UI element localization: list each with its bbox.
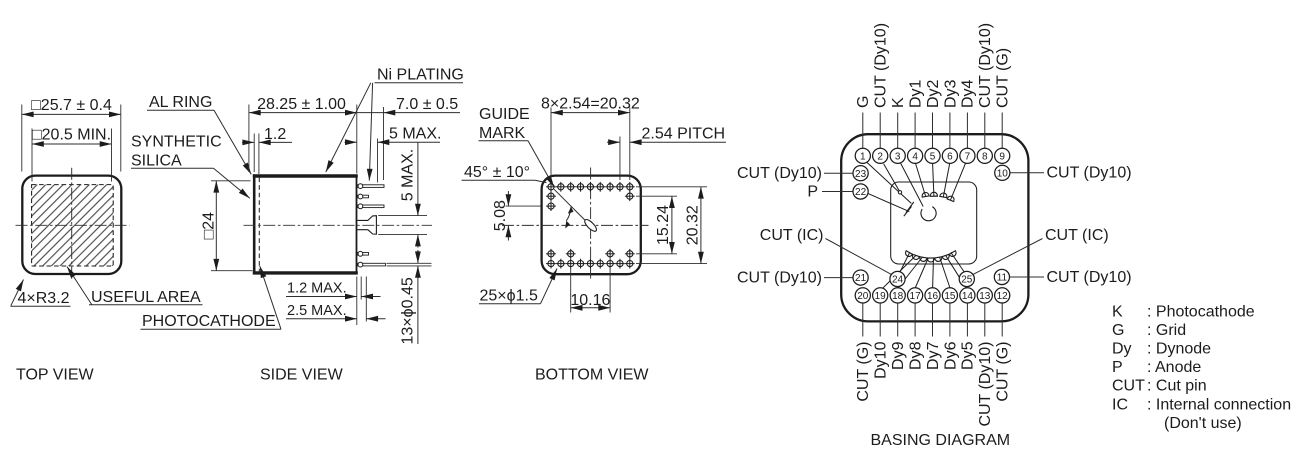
svg-text:7.0 ± 0.5: 7.0 ± 0.5	[396, 96, 458, 113]
svg-text:Dy3: Dy3	[942, 79, 959, 108]
svg-text:USEFUL AREA: USEFUL AREA	[91, 289, 201, 306]
pin 24 circle	[890, 271, 905, 286]
guide mark diagonal line	[554, 189, 585, 220]
svg-text:CUT (IC): CUT (IC)	[1045, 227, 1109, 244]
svg-text:CUT (Dy10): CUT (Dy10)	[977, 23, 994, 108]
pin 12 circle	[995, 288, 1010, 303]
svg-text:: Internal connection: : Internal connection	[1147, 396, 1291, 413]
svg-text:IC: IC	[1112, 396, 1128, 413]
bottom view pin hole 14	[566, 249, 576, 259]
svg-text:7: 7	[965, 151, 971, 162]
dimension 15.24: extension lines	[636, 195, 677, 197]
svg-text:2.54 PITCH: 2.54 PITCH	[642, 125, 726, 142]
label SYNTHETIC SILICA: underline and leader arrow	[131, 167, 214, 169]
bottom view pin hole 24	[615, 259, 625, 269]
pin 8 circle	[977, 148, 992, 163]
bottom pin extension lines	[387, 262, 432, 264]
svg-text:Dy5: Dy5	[960, 341, 977, 370]
pin 3 circle	[890, 148, 905, 163]
svg-text:8: 8	[982, 151, 988, 162]
dimension square 24: dimension line	[215, 181, 217, 271]
lead line pin22 label	[822, 191, 853, 193]
svg-text:10.16: 10.16	[570, 292, 610, 309]
svg-text:CUT (Dy10): CUT (Dy10)	[1047, 165, 1132, 182]
dimension 5 MAX vertical: label line	[417, 142, 419, 215]
svg-text:SILICA: SILICA	[131, 153, 182, 170]
svg-text:SIDE VIEW: SIDE VIEW	[260, 367, 344, 384]
dimension 1.2 MAX: extension lines	[356, 277, 358, 326]
dimension 8x2.54=20.32: dimension line	[551, 112, 630, 114]
side view: thick bottom edge	[253, 271, 358, 274]
svg-text:13: 13	[979, 291, 991, 302]
wire pin15 to bottom dynode assembly	[940, 257, 950, 288]
svg-text:10: 10	[997, 168, 1009, 179]
pin 20 circle	[855, 288, 870, 303]
svg-text:15.24: 15.24	[655, 205, 672, 245]
dimension 15.24: dimension line	[671, 196, 673, 254]
pin 6 circle	[942, 148, 957, 163]
pin 22 circle	[853, 184, 868, 199]
side view pin A glass bead	[358, 184, 363, 189]
label Ni PLATING: leader arrow to top edge	[326, 83, 371, 172]
side view pin E shaft (bottom long pin)	[357, 263, 385, 266]
top view: flange outline	[22, 176, 121, 274]
svg-text:: Dynode: : Dynode	[1147, 341, 1211, 358]
svg-text:1.2: 1.2	[264, 126, 286, 143]
side view: photocathode dashed line	[258, 178, 260, 272]
lead line CUT IC left to pin24	[826, 239, 893, 275]
bottom view pin hole 15	[605, 249, 615, 259]
pin 14 circle	[960, 288, 975, 303]
dimension 8x2.54=20.32: extension lines	[550, 108, 552, 181]
svg-text:P: P	[1112, 359, 1123, 376]
svg-text:9: 9	[999, 151, 1005, 162]
bottom view pin hole 1	[546, 182, 556, 192]
bottom view: base outline	[542, 176, 641, 275]
svg-text:17: 17	[910, 291, 922, 302]
top view: horizontal centerline	[16, 224, 130, 226]
svg-text:13×ϕ0.45: 13×ϕ0.45	[400, 277, 417, 344]
svg-text:CUT (Dy10): CUT (Dy10)	[873, 23, 890, 108]
bottom view pin hole 10	[546, 191, 556, 201]
pin 10 circle	[995, 165, 1010, 180]
svg-text:CUT (IC): CUT (IC)	[760, 227, 824, 244]
side view pin B glass bead	[358, 194, 363, 199]
wire pin2 to photocathode dot	[884, 164, 900, 191]
wire pin24 to bottom dynode assembly	[900, 252, 910, 272]
bottom view pin hole 4	[576, 182, 586, 192]
svg-text:G: G	[1112, 322, 1124, 339]
side view: thick top edge (al ring)	[253, 174, 358, 177]
bottom view pin hole 16	[625, 249, 635, 259]
svg-text:□24: □24	[201, 212, 218, 240]
svg-text:18: 18	[892, 291, 904, 302]
svg-text:CUT (G): CUT (G)	[995, 342, 1012, 402]
side view: body outline	[254, 176, 356, 273]
bottom view pin hole 8	[615, 182, 625, 192]
pin 21 circle	[853, 270, 868, 285]
dimension 5 MAX top: extension line	[377, 139, 379, 183]
label AL RING: underline and leader arrow	[147, 109, 214, 111]
pin 7 circle	[960, 148, 975, 163]
bottom view pin hole 6	[595, 182, 605, 192]
bottom view pin hole 9	[625, 182, 635, 192]
svg-text:19: 19	[875, 291, 887, 302]
dimension 5 MAX top: arrows	[345, 141, 357, 143]
svg-text:21: 21	[855, 273, 867, 284]
dimension 2.5 MAX: dimension line and arrows	[286, 318, 357, 320]
side view pin C glass bead	[358, 204, 363, 209]
label 45 deg: underline leader	[462, 179, 536, 181]
pin 2 circle	[873, 148, 888, 163]
svg-text:: Grid: : Grid	[1147, 322, 1186, 339]
svg-text:45° ± 10°: 45° ± 10°	[464, 164, 530, 181]
dimension 20.5 MIN.: dimension line	[32, 143, 112, 145]
bottom view pin hole 18	[556, 259, 566, 269]
dimension 10.16: dimension line	[571, 307, 610, 309]
side view: horizontal centerline	[244, 224, 433, 226]
dynode Dy1 electrode	[921, 192, 930, 197]
svg-text:12: 12	[997, 291, 1009, 302]
svg-text:25: 25	[961, 275, 973, 286]
dimension 7.0 +/- 0.5: dimension line with outside arrow	[357, 112, 384, 114]
svg-text:5 MAX.: 5 MAX.	[400, 149, 417, 201]
dimension 1.2 MAX: dimension line and arrows	[286, 296, 357, 298]
svg-text:TOP VIEW: TOP VIEW	[16, 367, 95, 384]
basing diagram: outer outline	[841, 134, 1028, 321]
wire pin16 to bottom dynode assembly	[932, 258, 935, 288]
lead line pin21 label	[824, 277, 853, 279]
svg-text:23: 23	[855, 169, 867, 180]
side view pin C shaft (long pin)	[357, 205, 384, 208]
svg-text:4×R3.2: 4×R3.2	[18, 290, 70, 307]
svg-text:Dy10: Dy10	[873, 341, 890, 378]
grid electrode tick	[906, 202, 914, 213]
dimension 25.7 +/- 0.4: extension lines	[21, 105, 23, 172]
wire pin3 to focus ring	[901, 163, 924, 206]
svg-text:P: P	[807, 183, 818, 200]
dimension 2.54 PITCH: arrows	[607, 141, 620, 143]
dynode Dy4 electrode	[947, 195, 956, 202]
dimension 13 x phi 0.45: vertical line with arrow	[417, 266, 419, 344]
svg-text:: Anode: : Anode	[1147, 359, 1201, 376]
bottom view pin hole 19	[566, 259, 576, 269]
svg-text:G: G	[855, 96, 872, 108]
pin 15 circle	[942, 288, 957, 303]
svg-text:4: 4	[912, 151, 918, 162]
pin 9 circle	[995, 148, 1010, 163]
wire pin19 to bottom dynode assembly	[883, 255, 917, 288]
svg-text:K: K	[890, 97, 907, 108]
svg-text:16: 16	[927, 291, 939, 302]
lead lines from bottom pins to labels	[863, 303, 1002, 337]
dimension 1.2 window: arrows	[242, 141, 254, 143]
label Ni PLATING: leader arrow to pins	[369, 83, 372, 181]
bottom view pin hole 25	[625, 259, 635, 269]
wire pin18 to bottom dynode assembly	[898, 257, 923, 288]
svg-text:□25.7 ± 0.4: □25.7 ± 0.4	[31, 97, 112, 114]
svg-text:8×2.54=20.32: 8×2.54=20.32	[541, 96, 640, 113]
svg-text:CUT (Dy10): CUT (Dy10)	[1047, 269, 1132, 286]
label PHOTOCATHODE: underline and leader arrow	[141, 328, 282, 330]
svg-text:5: 5	[930, 151, 936, 162]
bottom view pin hole 12	[546, 201, 556, 211]
lead lines from top pins to labels	[863, 113, 1002, 149]
top view: vertical centerline	[71, 168, 73, 282]
label 4xR3.2: leader with arrow	[11, 280, 24, 306]
lead line CUT IC right to pin25	[972, 239, 1042, 275]
pin 25 circle	[959, 271, 974, 286]
svg-text:: Photocathode: : Photocathode	[1147, 304, 1255, 321]
svg-text:Dy1: Dy1	[907, 79, 924, 108]
side view pin E glass bead	[358, 262, 363, 267]
svg-text:24: 24	[892, 275, 904, 286]
svg-text:11: 11	[997, 273, 1008, 284]
pin 17 circle	[908, 288, 923, 303]
pin 18 circle	[890, 288, 905, 303]
svg-text:Dy9: Dy9	[890, 341, 907, 370]
svg-text:BOTTOM VIEW: BOTTOM VIEW	[535, 367, 649, 384]
svg-text:Dy: Dy	[1112, 341, 1132, 358]
anode electrode tick	[904, 206, 912, 216]
svg-text:Dy2: Dy2	[925, 79, 942, 108]
svg-text:28.25 ± 1.00: 28.25 ± 1.00	[257, 96, 346, 113]
bottom view pin hole 13	[546, 249, 556, 259]
pin 11 circle	[994, 269, 1009, 284]
svg-text:: Cut pin: : Cut pin	[1147, 378, 1207, 395]
dynode Dy3 electrode	[939, 192, 948, 197]
bottom view pin hole 22	[595, 259, 605, 269]
wire pin25 to bottom dynode assembly	[951, 252, 965, 272]
top view: useful area hatched dashed square	[32, 185, 114, 266]
pin 19 circle	[873, 288, 888, 303]
dynode Dy2 electrode	[930, 192, 938, 196]
svg-text:20: 20	[857, 291, 869, 302]
svg-text:Dy8: Dy8	[907, 341, 924, 370]
wire pin1 to grid electrode	[867, 162, 912, 203]
dimension 7.0 +/- 0.5: extension line at pin tips	[383, 107, 385, 180]
label USEFUL AREA: leader with arrow	[67, 267, 92, 306]
pin 23 circle	[853, 166, 868, 181]
svg-text:BASING DIAGRAM: BASING DIAGRAM	[871, 432, 1011, 449]
svg-text:5 MAX.: 5 MAX.	[389, 126, 441, 143]
guide mark ellipse	[583, 218, 598, 233]
wire pin6 to dynode Dy3	[943, 163, 949, 197]
pin 1 circle	[855, 148, 870, 163]
label 25 x phi1.5: underline and leader arrow	[479, 303, 541, 305]
label 4xR3.2: underline	[11, 305, 71, 307]
side view pin A shaft (top long pin)	[357, 185, 384, 188]
bottom view: horizontal centerline	[502, 224, 649, 226]
dimension 5.08: extension line	[506, 205, 541, 207]
svg-text:CUT (Dy10): CUT (Dy10)	[977, 342, 994, 427]
svg-text:20.32: 20.32	[685, 205, 702, 245]
svg-text:GUIDE: GUIDE	[479, 106, 530, 123]
svg-text:2.5 MAX.: 2.5 MAX.	[287, 303, 347, 319]
dimension 2.54 PITCH: extension line	[619, 137, 621, 181]
bottom view pin hole 23	[605, 259, 615, 269]
svg-text:Ni PLATING: Ni PLATING	[377, 67, 464, 84]
lead line pin11 label	[1009, 276, 1044, 278]
wire pin14 to bottom dynode assembly	[946, 255, 967, 288]
svg-text:1: 1	[860, 151, 866, 162]
bottom dynode assembly	[904, 251, 958, 262]
svg-text:2: 2	[877, 151, 883, 162]
wire pin4 to dynode Dy1	[916, 163, 926, 196]
svg-text:CUT (Dy10): CUT (Dy10)	[737, 269, 822, 286]
svg-text:Dy4: Dy4	[960, 79, 977, 108]
dimension 28.25 +/- 1.00: extension lines	[248, 105, 250, 173]
svg-text:SYNTHETIC: SYNTHETIC	[131, 134, 222, 151]
dimension 28.25 +/- 1.00: dimension line	[249, 112, 357, 114]
wire pin22 to anode electrode	[868, 194, 909, 212]
dimension 10.16: extension lines	[570, 269, 572, 313]
svg-text:6: 6	[947, 151, 953, 162]
svg-text:CUT (Dy10): CUT (Dy10)	[737, 165, 822, 182]
dimension 20.5 MIN.: extension lines	[31, 129, 33, 182]
svg-text:CUT: CUT	[1112, 378, 1145, 395]
wire pin7 to dynode Dy4	[950, 163, 965, 201]
basing diagram: inner envelope	[891, 182, 977, 264]
svg-text:MARK: MARK	[479, 125, 526, 142]
photocathode contact dot	[898, 191, 901, 194]
svg-text:25×ϕ1.5: 25×ϕ1.5	[480, 287, 538, 304]
side view pin D glass bead	[358, 251, 363, 256]
svg-text:22: 22	[855, 187, 867, 198]
pin 16 circle	[925, 288, 940, 303]
bottom view pin hole 3	[566, 182, 576, 192]
label USEFUL AREA: underline	[89, 304, 203, 306]
dimension square 24: extension lines	[211, 180, 251, 182]
svg-text:AL RING: AL RING	[149, 94, 212, 111]
wire pin17 to bottom dynode assembly	[915, 258, 928, 288]
side view pin B shaft (short stub)	[357, 195, 368, 198]
bottom view pin hole 20	[576, 259, 586, 269]
wire pin5 to dynode Dy2	[933, 163, 934, 196]
side view pin D shaft (bottom stub)	[357, 253, 368, 256]
bottom view pin hole 11	[625, 191, 635, 201]
svg-text:CUT (G): CUT (G)	[995, 48, 1012, 108]
angle arc arrows	[566, 207, 571, 221]
svg-text:Dy7: Dy7	[925, 341, 942, 370]
lead line pin23 label	[824, 172, 853, 174]
svg-text:Dy6: Dy6	[942, 341, 959, 370]
dimension 20.32 vertical: extension lines	[636, 186, 707, 188]
svg-text:(Don't use): (Don't use)	[1164, 415, 1242, 432]
lead line pin10 label	[1010, 172, 1044, 174]
svg-text:14: 14	[962, 291, 974, 302]
bottom view: vertical centerline	[590, 168, 592, 282]
label GUIDE MARK: underline and leader arrow	[479, 140, 529, 142]
pin 13 circle	[977, 288, 992, 303]
dimension 25.7 +/- 0.4: dimension line	[22, 113, 121, 115]
pin 5 circle	[925, 148, 940, 163]
dimension 5 MAX vertical: extension lines from exhaust tip	[378, 215, 427, 217]
bottom view pin hole 7	[605, 182, 615, 192]
svg-text:5.08: 5.08	[492, 200, 509, 231]
svg-text:□20.5 MIN.: □20.5 MIN.	[32, 127, 111, 144]
bottom view pin hole 17	[546, 259, 556, 269]
dimension 5 MAX vertical: lower arrow	[417, 235, 419, 248]
focus ring arc	[921, 207, 936, 221]
bottom view pin hole 5	[586, 182, 596, 192]
dimension 5.08: arrows	[507, 191, 509, 206]
pin 4 circle	[908, 148, 923, 163]
side view exhaust tip	[357, 216, 376, 235]
svg-text:1.2 MAX.: 1.2 MAX.	[287, 281, 347, 297]
label Ni PLATING: underline	[375, 82, 464, 84]
dimension 2.5 MAX: extension line	[365, 277, 367, 322]
svg-text:CUT (G): CUT (G)	[855, 342, 872, 402]
bottom view pin hole 21	[586, 259, 596, 269]
svg-text:K: K	[1112, 304, 1123, 321]
bottom view pin hole 2	[556, 182, 566, 192]
svg-text:3: 3	[895, 151, 901, 162]
gap arrow to bottom pin	[417, 250, 419, 263]
svg-text:PHOTOCATHODE: PHOTOCATHODE	[142, 313, 276, 330]
svg-text:15: 15	[944, 291, 956, 302]
dimension 1.2 window: extension lines	[253, 134, 255, 173]
side view: thick left edge (faceplate)	[253, 174, 256, 274]
dimension 20.32 vertical: dimension line	[700, 187, 702, 264]
